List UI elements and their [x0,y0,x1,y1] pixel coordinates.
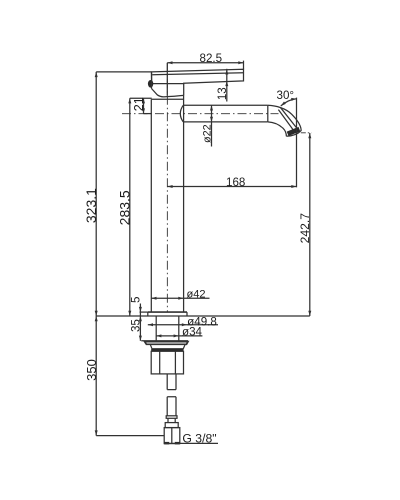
mounting nut facet line 1 [159,351,161,374]
body top seam [151,98,183,100]
dim phi42 left arrow [151,297,156,300]
dim 21 bottom extension [144,113,152,115]
G3/8 nut body [164,428,180,444]
svg-text:350: 350 [84,359,99,381]
spout horizontal centerline [122,113,279,115]
leader phi49.8 right arrow [182,323,187,326]
dim 21 top arrow [142,98,145,103]
shank left edge [155,316,157,341]
washer plate [145,342,188,345]
dim 35 top arrow [139,316,142,321]
dim phi42 line [151,297,209,299]
G3/8 nut foot right [175,442,180,445]
dim 283.5 bottom arrow [128,311,131,316]
lever handle bar outline [152,69,244,83]
dim phi42 right arrow [178,297,183,300]
aerator dark band [288,129,300,134]
spout bend outer curve [268,105,301,130]
dim phi22 down arrow [210,117,213,122]
supply pipe upper segment [167,374,176,390]
dim 21 bottom arrow [142,108,145,113]
svg-text:242.7: 242.7 [298,213,312,244]
leader phi34 right arrow [174,334,179,337]
dim 283.5 line [129,98,131,316]
dim 242.7 bottom arrow [308,311,311,316]
dim 82.5 right extension [243,61,245,70]
dim 13 line [226,69,228,102]
dim 168 right arrow [291,185,296,188]
counter deck top line [96,315,310,317]
svg-text:5: 5 [130,296,143,302]
dim 30 deg arc [281,99,297,106]
dim 350 line [95,316,97,436]
body right edge [183,95,185,312]
horseshoe cone washer [150,344,185,349]
rubber ring dark band [151,349,183,351]
G3/8 nut foot left [164,442,169,445]
base flange top [148,311,187,313]
body left edge [150,99,152,312]
lever set-screw dot [148,80,153,88]
dim 283.5 top arrow [128,98,131,103]
spout outlet face edge B [278,110,293,130]
svg-text:283.5: 283.5 [117,190,133,225]
dim phi22 up arrow [210,105,213,110]
dim 13 top arrow [225,69,228,74]
svg-text:ø22: ø22 [202,124,214,143]
spout tip centerline stub [301,132,312,134]
dim 30 deg arc right arrow [291,98,296,101]
svg-text:35: 35 [130,319,143,332]
dim 242.7 top arrow [308,133,311,138]
G3/8 nut bottom line extended [164,442,218,444]
dim 35 bottom arrow [139,336,142,341]
counter deck bottom line [141,340,188,342]
connector collar 1 [166,416,177,419]
svg-text:82.5: 82.5 [200,52,223,65]
shank right edge [178,316,180,341]
dim 5 flange-top extension [140,311,148,313]
leader phi49.8 left arrow [148,323,153,326]
spout top edge [183,104,268,106]
dim 5 and 35 shared line [139,304,141,341]
connector collar 2 [165,423,178,428]
spout left cap arc [180,105,183,122]
mounting nut body [151,351,183,374]
dim 30 deg vertical reference [296,98,298,188]
dim 168 left arrow [167,185,172,188]
spout end joint line [267,105,269,122]
lever skirt right edge [183,83,185,95]
leader phi34 dim line [156,335,202,337]
svg-text:323.1: 323.1 [83,188,99,223]
lever base chamfer [152,89,164,97]
dim 21 line [143,98,145,113]
dim 82.5 left extension [166,63,168,96]
dim phi22 line [211,105,213,146]
dim 5 down arrow [139,307,142,312]
dim 13 bottom arrow [225,81,228,86]
svg-text:13: 13 [216,87,229,100]
spout bottom edge [183,121,268,123]
leader phi34 left arrow [156,334,161,337]
dim 350 bottom extension [96,435,164,437]
vertical centerline [166,63,168,312]
dim 82.5 left arrow [167,61,172,64]
spout bend inner curve [268,122,287,136]
dim 82.5 right arrow [238,61,243,64]
dim 350 top arrow [95,316,98,321]
dim 242.7 line [309,133,311,316]
spout outlet face edge A [280,107,297,128]
svg-text:G 3/8": G 3/8" [182,431,216,445]
mounting nut facet line 2 [174,351,176,374]
svg-text:168: 168 [226,176,245,189]
lever skirt bottom [164,95,184,97]
dim 323.1 line [95,72,97,316]
base flange left end [147,312,149,316]
dim 323.1 bottom arrow [95,311,98,316]
svg-text:30°: 30° [277,89,295,102]
leader phi49.8 dim line [148,324,218,326]
G3/8 nut facet line [171,428,173,444]
dim 82.5 line [167,62,243,64]
dim 21 top extension [130,97,152,99]
supply pipe lower segment [167,397,176,416]
spout outlet bottom rim [286,130,301,136]
lever left edge [151,72,153,89]
connector neck [168,418,175,422]
dim 350 bottom arrow [95,430,98,435]
base flange right end [186,312,188,316]
svg-text:21: 21 [132,97,146,111]
svg-text:ø42: ø42 [186,289,205,301]
dim 30 deg arc left arrow [281,102,286,106]
dim 323.1 top extension [96,71,151,73]
svg-text:ø34: ø34 [182,326,203,339]
dim 323.1 top arrow [95,72,98,77]
dim 168 line [167,186,296,188]
